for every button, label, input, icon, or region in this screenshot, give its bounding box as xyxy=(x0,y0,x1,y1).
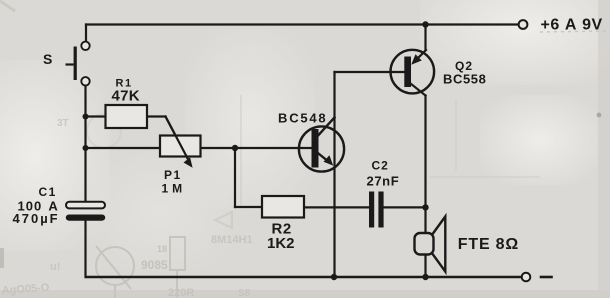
svg-text:+6 A 9V: +6 A 9V xyxy=(541,16,603,33)
svg-text:18: 18 xyxy=(157,244,167,254)
svg-text:S: S xyxy=(43,51,52,67)
svg-text:1M: 1M xyxy=(162,182,187,196)
svg-text:220R: 220R xyxy=(168,287,194,298)
svg-text:BC558: BC558 xyxy=(443,72,486,87)
svg-text:9085: 9085 xyxy=(141,258,168,272)
svg-text:S8: S8 xyxy=(238,288,251,298)
svg-text:FTE 8Ω: FTE 8Ω xyxy=(458,236,519,253)
svg-text:P1: P1 xyxy=(164,168,182,182)
svg-text:C2: C2 xyxy=(372,159,389,173)
svg-text:C1: C1 xyxy=(39,185,57,199)
svg-text:27nF: 27nF xyxy=(367,173,400,188)
svg-text:470µF: 470µF xyxy=(13,211,60,226)
svg-text:8M14H1: 8M14H1 xyxy=(211,234,253,246)
svg-text:1K2: 1K2 xyxy=(267,235,295,252)
svg-text:47K: 47K xyxy=(112,88,140,105)
svg-text:BC548: BC548 xyxy=(278,110,327,125)
svg-text:3T: 3T xyxy=(57,118,69,129)
svg-text:u!: u! xyxy=(50,261,60,273)
